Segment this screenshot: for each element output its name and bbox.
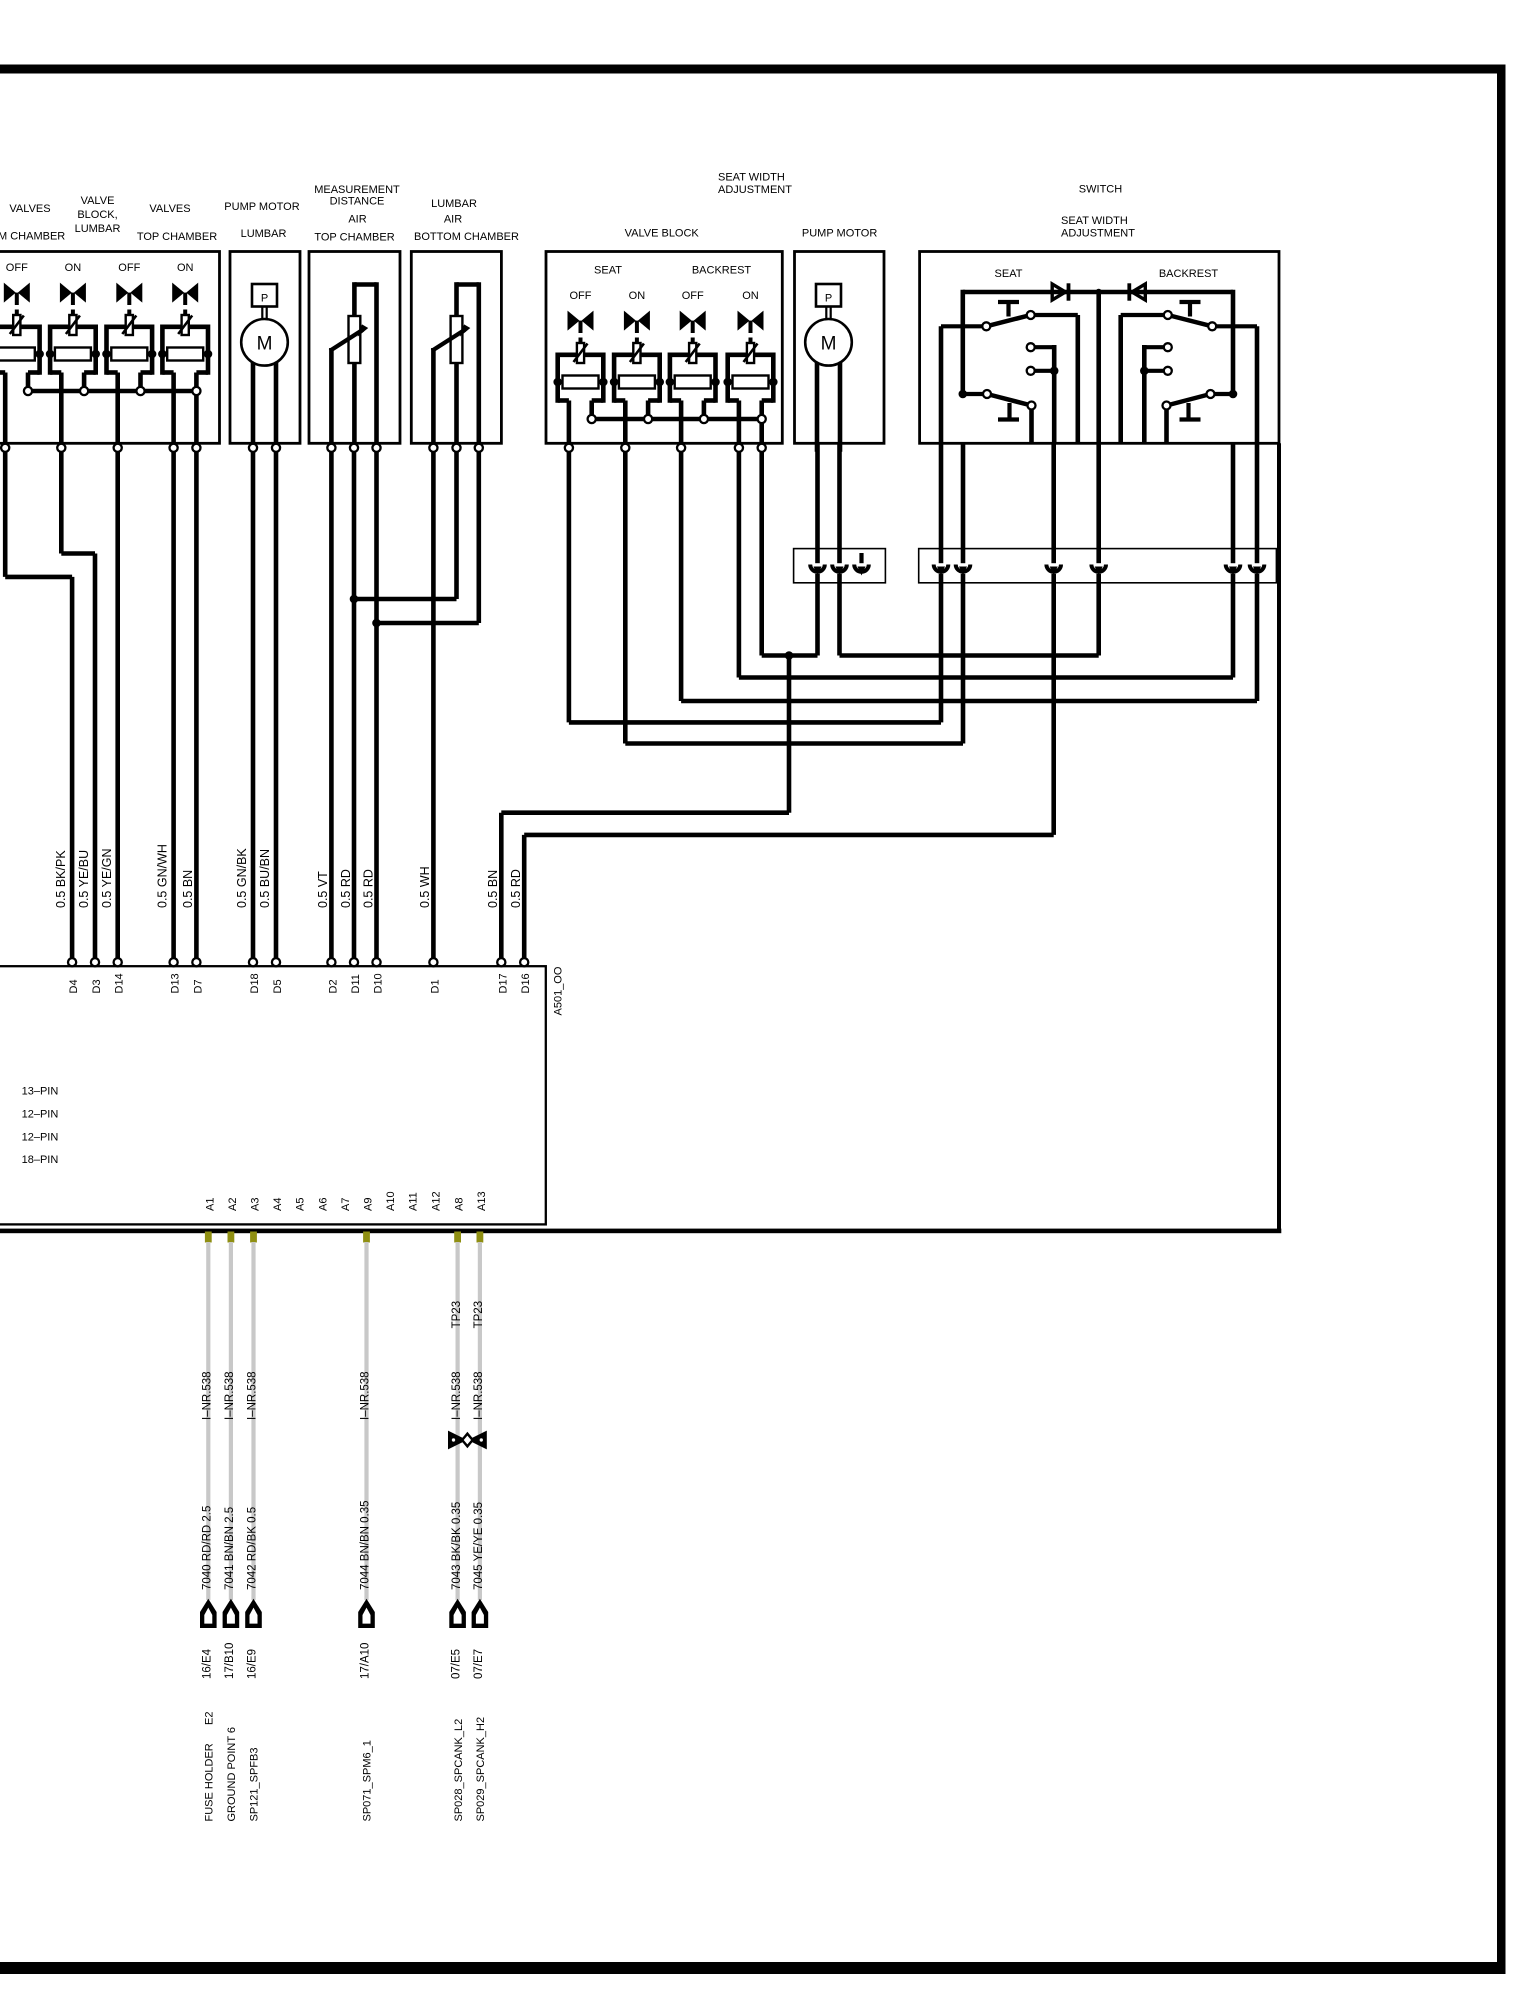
svg-text:18–PIN: 18–PIN (22, 1154, 59, 1166)
svg-text:7045 YE/YE 0.35: 7045 YE/YE 0.35 (473, 1502, 485, 1590)
box pump motor lumbar (230, 252, 300, 444)
svg-text:VALVES: VALVES (9, 203, 50, 215)
wire D3 net (59, 448, 64, 554)
switch seat lower actuator T (1007, 403, 1011, 418)
svg-text:SP121_SPFB3: SP121_SPFB3 (249, 1748, 261, 1822)
svg-text:M: M (821, 334, 837, 355)
svg-text:D1: D1 (429, 979, 441, 993)
switch center wire down (1096, 292, 1101, 443)
connector hook spare arrow (859, 553, 863, 566)
sensor air bottom chamber pot bottom wire (454, 363, 459, 452)
wire switch seat F down (1051, 443, 1056, 835)
svg-text:12–PIN: 12–PIN (22, 1132, 59, 1144)
svg-text:A13: A13 (476, 1191, 488, 1211)
valve u4 ON resistor (158, 350, 167, 359)
valve u2 ON bowtie symbol (60, 283, 72, 303)
box measurement distance air top chamber (309, 252, 400, 444)
switch check valve right (1132, 284, 1145, 300)
wire valve2-1 to switch seat (567, 448, 572, 723)
svg-text:D2: D2 (327, 979, 339, 993)
wire D1 net (431, 448, 436, 958)
valve u3 OFF resistor (666, 378, 675, 387)
valve u4 ON bowtie symbol (738, 311, 750, 331)
svg-text:TOP CHAMBER: TOP CHAMBER (137, 231, 217, 243)
svg-text:0.5 BU/BN: 0.5 BU/BN (258, 849, 272, 908)
valve u2 ON dashed stem (71, 310, 75, 316)
svg-text:AIR: AIR (444, 214, 462, 226)
svg-text:ON: ON (177, 262, 194, 274)
svg-text:PUMP MOTOR: PUMP MOTOR (224, 201, 299, 213)
svg-text:A3: A3 (250, 1198, 262, 1211)
module box right edge (1277, 443, 1281, 1231)
valve block 2 bus tap circles (588, 415, 596, 423)
svg-text:I–NR.538: I–NR.538 (247, 1371, 259, 1420)
valve u2 ON resistor (610, 378, 619, 387)
valve u4 ON resistor (723, 378, 732, 387)
svg-text:I–NR.538: I–NR.538 (451, 1371, 463, 1420)
svg-text:13–PIN: 13–PIN (22, 1086, 59, 1098)
twisted pair symbol (448, 1431, 467, 1450)
ECU connector box A501_OO (0, 966, 546, 1224)
svg-text:AIR: AIR (348, 214, 366, 226)
terminal circles pump motor lumbar (249, 444, 257, 452)
valve u4 ON solenoid coil (182, 315, 189, 335)
svg-text:PUMP MOTOR: PUMP MOTOR (802, 228, 877, 240)
svg-text:M: M (257, 334, 273, 355)
svg-text:LUMBAR: LUMBAR (241, 228, 287, 240)
svg-text:SEAT: SEAT (995, 268, 1023, 280)
page frame top bar (0, 65, 1506, 74)
svg-text:LUMBAR: LUMBAR (431, 198, 477, 210)
wire D17 net (499, 813, 504, 959)
valve u1 OFF bottom steps (0, 370, 5, 375)
ECU pin circles (68, 958, 76, 966)
switch backrest lower contact (1229, 390, 1238, 399)
wire pump2 to switch center (837, 443, 842, 655)
svg-text:ADJUSTMENT: ADJUSTMENT (1061, 228, 1135, 240)
pump motor lumbar leads (251, 341, 256, 452)
switch backrest upper actuator T (1180, 300, 1201, 304)
switch check valve left (1052, 284, 1065, 300)
svg-text:D17: D17 (497, 973, 509, 993)
wire D11 net (352, 448, 357, 958)
wire valve2-2 to switch seat (623, 448, 628, 744)
wire D16 net (522, 835, 527, 958)
svg-text:OFF: OFF (6, 262, 28, 274)
svg-text:VALVES: VALVES (149, 203, 190, 215)
svg-text:OFF: OFF (682, 290, 704, 302)
module box bottom bar (0, 1229, 1281, 1234)
valve u3 OFF body loop (670, 352, 689, 357)
sensor air top chamber wiper arm (329, 348, 334, 452)
svg-text:E2: E2 (204, 1712, 216, 1725)
pump motor lumbar P box (252, 284, 277, 307)
svg-text:I–NR.538: I–NR.538 (202, 1371, 214, 1420)
svg-text:07/E7: 07/E7 (473, 1649, 485, 1679)
svg-text:A7: A7 (340, 1198, 352, 1211)
valve u1 OFF solenoid coil (577, 343, 584, 363)
switch backrest lower actuator T (1186, 403, 1190, 418)
pump motor seat-width M circle (805, 319, 852, 366)
svg-text:0.5 VT: 0.5 VT (316, 871, 330, 908)
valve u3 OFF resistor (102, 350, 111, 359)
valve u3 OFF solenoid coil (689, 343, 696, 363)
svg-text:16/E9: 16/E9 (247, 1649, 259, 1679)
svg-text:ON: ON (742, 290, 759, 302)
terminal circles sensor 2 (429, 444, 437, 452)
svg-text:D10: D10 (373, 973, 385, 993)
svg-text:A11: A11 (408, 1192, 420, 1211)
valve u2 ON dashed stem (635, 338, 639, 344)
terminal circles valve block 1 (1, 444, 9, 452)
svg-text:P: P (825, 293, 832, 305)
svg-text:0.5 RD: 0.5 RD (339, 869, 353, 908)
box pump motor 2 (795, 252, 885, 444)
valve block 1 bus tap circles (24, 387, 32, 395)
svg-text:ON: ON (629, 290, 646, 302)
valve u4 ON bottom steps (162, 370, 173, 375)
svg-text:SP071_SPM6_1: SP071_SPM6_1 (362, 1740, 374, 1821)
svg-text:0.5 BN: 0.5 BN (181, 870, 195, 908)
svg-text:DISTANCE: DISTANCE (330, 196, 385, 208)
svg-text:A501_OO: A501_OO (553, 966, 565, 1015)
svg-text:0.5 GN/WH: 0.5 GN/WH (156, 844, 170, 908)
switch top wire (963, 290, 1233, 295)
box lumbar air bottom chamber (411, 252, 501, 444)
svg-text:SEAT WIDTH: SEAT WIDTH (718, 172, 785, 184)
valve u3 OFF bottom steps (670, 398, 681, 403)
connector bus box pump (794, 549, 886, 583)
svg-text:D18: D18 (249, 973, 261, 993)
svg-text:7044 BN/BN 0.35: 7044 BN/BN 0.35 (360, 1500, 372, 1590)
wire D10 net (374, 448, 379, 958)
svg-text:VALVE BLOCK: VALVE BLOCK (625, 228, 700, 240)
valve u4 ON dashed stem (183, 310, 187, 316)
page frame right bar (1497, 65, 1506, 1975)
valve u1 OFF resistor (553, 378, 562, 387)
svg-text:FUSE HOLDER: FUSE HOLDER (204, 1743, 216, 1821)
harness arrow terminals (200, 1599, 217, 1628)
valve block 1 common bus (28, 389, 196, 394)
valve block 2 output wires (567, 401, 572, 452)
valve u3 OFF dashed stem (691, 338, 695, 344)
svg-text:A5: A5 (295, 1198, 307, 1211)
svg-text:0.5 WH: 0.5 WH (418, 866, 432, 908)
wire D13 net (171, 448, 176, 958)
valve u2 ON bowtie symbol (624, 311, 636, 331)
valve u3 OFF bottom steps (107, 370, 118, 375)
svg-text:M CHAMBER: M CHAMBER (0, 231, 65, 243)
svg-text:7043 BK/BK 0.35: 7043 BK/BK 0.35 (451, 1502, 463, 1590)
svg-text:BACKREST: BACKREST (1159, 268, 1219, 280)
valve block 2 common bus (592, 417, 762, 422)
valve u4 ON body loop (162, 324, 181, 329)
valve u4 ON bottom steps (728, 398, 739, 403)
svg-text:D3: D3 (91, 979, 103, 993)
box switch seat width adjustment (920, 252, 1279, 444)
svg-text:BOTTOM CHAMBER: BOTTOM CHAMBER (414, 231, 519, 243)
svg-text:SP028_SPCANK_L2: SP028_SPCANK_L2 (453, 1719, 465, 1822)
wire D2 net (329, 448, 334, 958)
svg-text:SEAT: SEAT (594, 265, 622, 277)
svg-text:A10: A10 (385, 1191, 397, 1211)
valve u2 ON bottom steps (50, 370, 61, 375)
valve u1 OFF bottom steps (558, 398, 569, 403)
sensor air top chamber potentiometer (349, 316, 361, 363)
valve u3 OFF body loop (107, 324, 126, 329)
valve u2 ON body loop (50, 324, 69, 329)
valve u1 OFF bowtie symbol (568, 311, 580, 331)
wire D5 net (274, 448, 279, 958)
terminal circles valve block 2 (565, 444, 573, 452)
valve u2 ON bottom steps (614, 398, 625, 403)
svg-text:TP23: TP23 (473, 1301, 485, 1329)
switch seat F connector (1031, 345, 1055, 349)
svg-text:MEASUREMENT: MEASUREMENT (314, 184, 400, 196)
svg-text:VALVE: VALVE (81, 195, 115, 207)
svg-text:0.5 RD: 0.5 RD (361, 869, 375, 908)
terminal circles sensor 1 (327, 444, 335, 452)
svg-text:OFF: OFF (118, 262, 140, 274)
svg-text:ADJUSTMENT: ADJUSTMENT (718, 184, 792, 196)
svg-text:0.5 BK/PK: 0.5 BK/PK (54, 850, 68, 908)
valve u1 OFF bowtie symbol (4, 283, 16, 303)
svg-text:P: P (261, 293, 268, 305)
svg-text:0.5 YE/BU: 0.5 YE/BU (77, 850, 91, 908)
valve u1 OFF body loop (558, 352, 577, 357)
svg-text:D5: D5 (272, 979, 284, 993)
svg-text:0.5 YE/GN: 0.5 YE/GN (100, 848, 114, 908)
valve u3 OFF bowtie symbol (680, 311, 692, 331)
switch seat-side left verticals (960, 290, 965, 394)
valve u2 ON resistor (46, 350, 55, 359)
svg-text:17/A10: 17/A10 (360, 1643, 372, 1679)
svg-text:12–PIN: 12–PIN (22, 1109, 59, 1121)
switch backrest F connector (1144, 345, 1168, 349)
valve block 1 output wires (3, 373, 8, 452)
svg-text:D7: D7 (192, 979, 204, 993)
connector hooks pump wires (813, 563, 821, 574)
wire D18 net (251, 448, 256, 958)
sensor air bottom chamber potentiometer (451, 316, 463, 363)
svg-text:0.5 BN: 0.5 BN (486, 870, 500, 908)
valve u4 ON bowtie symbol (172, 283, 184, 303)
svg-text:16/E4: 16/E4 (201, 1648, 213, 1679)
wire valve2-4 to switch backrest (737, 448, 742, 678)
valve u2 ON solenoid coil (69, 315, 76, 335)
valve u3 OFF bowtie symbol (116, 283, 128, 303)
page frame bottom bar (0, 1962, 1506, 1974)
svg-text:SWITCH: SWITCH (1079, 184, 1122, 196)
svg-text:A2: A2 (227, 1198, 239, 1211)
switch seat lower contact (959, 390, 968, 399)
svg-text:A12: A12 (430, 1191, 442, 1211)
valve u1 OFF solenoid coil (13, 315, 20, 335)
svg-text:D13: D13 (170, 973, 182, 993)
svg-text:7042 RD/BK 0.5: 7042 RD/BK 0.5 (247, 1507, 259, 1590)
connector hooks switch wires (937, 563, 945, 574)
valve u1 OFF dashed stem (579, 338, 583, 344)
valve u3 OFF solenoid coil (126, 315, 133, 335)
svg-text:I–NR.538: I–NR.538 (473, 1371, 485, 1420)
svg-text:SEAT WIDTH: SEAT WIDTH (1061, 215, 1128, 227)
svg-text:TP23: TP23 (451, 1301, 463, 1329)
harness wires (206, 1242, 210, 1600)
svg-text:BACKREST: BACKREST (692, 265, 752, 277)
pump motor seat-width P box (816, 284, 841, 307)
wire D14 net (115, 448, 120, 958)
pump motor lumbar M circle (241, 319, 288, 366)
svg-text:7040 RD/RD 2.5: 7040 RD/RD 2.5 (202, 1506, 214, 1590)
switch center node (1096, 289, 1102, 295)
switch seat upper contact (941, 324, 986, 328)
svg-text:0.5 GN/BK: 0.5 GN/BK (235, 848, 249, 908)
valve u1 OFF dashed stem (15, 310, 19, 316)
box valves bottom+top chamber (0, 252, 220, 444)
svg-text:D4: D4 (68, 979, 80, 993)
svg-text:A8: A8 (454, 1198, 466, 1211)
sensor air top chamber pot bottom wire (352, 363, 357, 452)
svg-text:17/B10: 17/B10 (224, 1643, 236, 1679)
svg-text:ON: ON (65, 262, 82, 274)
svg-text:A1: A1 (204, 1198, 216, 1211)
svg-text:D11: D11 (350, 974, 362, 993)
sensor air bottom chamber U wire (457, 282, 479, 287)
box valve block seat/backrest (546, 252, 782, 444)
svg-text:07/E5: 07/E5 (451, 1649, 463, 1679)
valve u4 ON dashed stem (749, 338, 753, 344)
pump motor lumbar shaft (261, 307, 263, 321)
svg-text:SP029_SPCANK_H2: SP029_SPCANK_H2 (475, 1717, 487, 1822)
svg-text:LUMBAR: LUMBAR (75, 223, 121, 235)
wire D4 net (3, 448, 8, 577)
switch backrest-side right verticals (1231, 290, 1236, 394)
svg-text:A9: A9 (363, 1198, 375, 1211)
valve u4 ON solenoid coil (747, 343, 754, 363)
valve u4 ON body loop (728, 352, 747, 357)
valve u1 OFF body loop (0, 324, 13, 329)
svg-text:TOP CHAMBER: TOP CHAMBER (314, 232, 394, 244)
pump motor seat-width leads (815, 341, 820, 452)
svg-text:A4: A4 (272, 1198, 284, 1211)
wire valve2 common to pump (759, 448, 764, 656)
svg-text:D16: D16 (520, 973, 532, 993)
sensor air top chamber U wire (354, 282, 376, 287)
svg-text:I–NR.538: I–NR.538 (224, 1371, 236, 1420)
svg-text:I–NR.538: I–NR.538 (360, 1371, 372, 1420)
svg-text:OFF: OFF (570, 290, 592, 302)
pump motor seat-width shaft (825, 307, 827, 321)
valve u2 ON solenoid coil (633, 343, 640, 363)
svg-text:A6: A6 (317, 1198, 329, 1211)
svg-text:7041 BN/BN 2.5: 7041 BN/BN 2.5 (224, 1507, 236, 1590)
svg-text:0.5 RD: 0.5 RD (509, 869, 523, 908)
wire D7 net (194, 448, 199, 958)
harness pin stubs (205, 1232, 212, 1243)
wire valve2-3 to switch backrest (679, 448, 684, 701)
valve u3 OFF dashed stem (127, 310, 131, 316)
svg-text:D14: D14 (114, 973, 126, 993)
svg-text:GROUND POINT 6: GROUND POINT 6 (226, 1727, 238, 1822)
svg-text:BLOCK,: BLOCK, (77, 209, 117, 221)
switch backrest upper contact (1212, 324, 1257, 328)
switch seat upper actuator T (998, 300, 1019, 304)
valve u2 ON body loop (614, 352, 633, 357)
connector bus box switch (919, 549, 1277, 583)
sensor air bottom chamber wiper arm (431, 348, 436, 452)
